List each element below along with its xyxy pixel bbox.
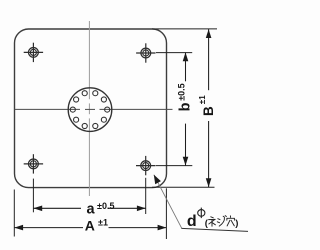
svg-text:±1: ±1 — [198, 95, 207, 104]
svg-text:A: A — [85, 218, 95, 234]
svg-text:d: d — [187, 213, 197, 230]
svg-text:): ) — [235, 218, 238, 229]
svg-text:±0.5: ±0.5 — [97, 201, 114, 211]
svg-text:b: b — [177, 102, 193, 111]
svg-text:a: a — [87, 202, 96, 218]
svg-text:±1: ±1 — [98, 218, 108, 228]
svg-text:±0.5: ±0.5 — [176, 83, 186, 100]
svg-text:B: B — [201, 106, 216, 116]
